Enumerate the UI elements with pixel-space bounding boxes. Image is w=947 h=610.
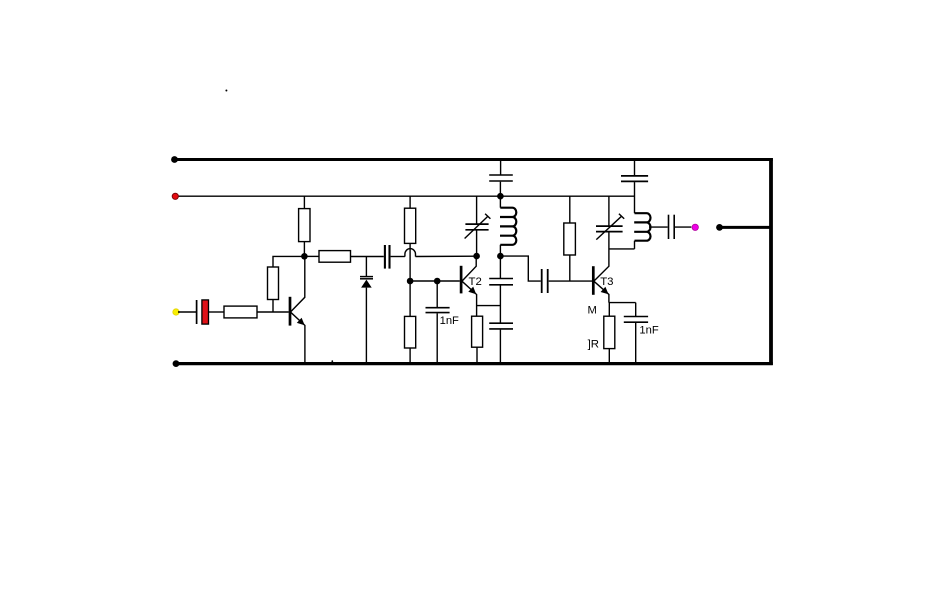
capacitor C13 1nF [624, 303, 648, 363]
wire hop over [405, 249, 416, 257]
wire input [178, 311, 196, 313]
resistor R6 [405, 281, 416, 363]
resistor R9 [604, 303, 615, 363]
node input yellow terminal [173, 309, 179, 315]
transistor T1 base bar [289, 297, 292, 326]
wire coil tap to C12 [649, 226, 668, 228]
wire feedback to R4 [273, 256, 304, 267]
trimmer capacitor C10 [596, 196, 624, 239]
wire R4 to base [272, 300, 274, 313]
wire T3 emitter branch [609, 302, 636, 304]
label M [588, 305, 597, 317]
transistor T3 base bar [592, 266, 595, 295]
wire tank1 to C9 [500, 256, 540, 281]
label 1nF for C13 [639, 324, 658, 336]
resistor R3 [319, 251, 351, 263]
trimmer capacitor C4 [465, 196, 491, 256]
svg-text:T2: T2 [469, 276, 482, 288]
resistor R8 [564, 223, 576, 255]
resistor R4 [268, 267, 279, 300]
resistor R7 [472, 316, 483, 363]
capacitor C1 plate [196, 300, 198, 324]
node supply input red terminal [172, 193, 178, 199]
capacitor C12 [669, 215, 675, 239]
wire node to R3 [304, 255, 319, 257]
svg-text:T3: T3 [600, 276, 613, 288]
node bottom-left terminal [173, 360, 180, 367]
capacitor C3 1nF [426, 281, 450, 363]
transistor T2 base bar [460, 266, 463, 294]
svg-text:]R: ]R [588, 339, 599, 351]
capacitor C6 tank1 to top rail [489, 160, 513, 197]
label 1nF for C3 [440, 315, 459, 327]
node tank1 left [473, 253, 480, 260]
transistor T2 emitter [462, 281, 477, 316]
transistor T3 collector [594, 231, 609, 281]
capacitor C11 tank2 to top rail [621, 160, 648, 214]
wire R8 to base line [569, 255, 571, 281]
svg-text:1nF: 1nF [639, 324, 658, 336]
transistor T3 emitter [594, 281, 609, 302]
wire T2 emitter branch [477, 305, 501, 307]
transistor T2 collector [462, 256, 476, 281]
wire C12 to output [675, 226, 691, 228]
wire R1 to T1 base [257, 311, 289, 313]
wire right border [769, 158, 773, 365]
capacitor C1 polarized plate red [202, 300, 209, 324]
svg-text:M: M [588, 305, 597, 317]
label T3 [600, 276, 613, 288]
wire hop to node [416, 255, 477, 257]
capacitor C2 [385, 245, 390, 269]
node output magenta terminal [692, 224, 698, 230]
resistor R5 [405, 208, 416, 243]
resistor R2 [299, 209, 310, 242]
label T2 [469, 276, 482, 288]
wire tank2 branch [609, 248, 635, 250]
wire C2 to hop [391, 256, 405, 258]
wire Vcc to R5 [409, 196, 411, 208]
wire Vcc to R8 [569, 196, 571, 223]
stray dot [225, 90, 227, 92]
stray dot 2 [331, 360, 333, 362]
node output terminal black [716, 224, 723, 231]
wire Vcc rail [175, 195, 634, 197]
wire R3 to C2 [351, 256, 384, 258]
wire bottom ground rail [175, 362, 773, 365]
wire R5 through hop to node [409, 243, 411, 281]
capacitor C9 [542, 269, 548, 293]
wire R2 to node [303, 242, 305, 257]
node C3 junction [434, 278, 441, 285]
svg-text:1nF: 1nF [440, 315, 459, 327]
resistor R1 [224, 306, 257, 318]
capacitor C7 divider upper [489, 256, 513, 323]
node T2 bias junction [407, 278, 414, 285]
node top-left terminal [171, 156, 178, 163]
wire Vcc to R2 [303, 196, 305, 208]
diode D1 varicap [360, 257, 373, 364]
inductor L2 [634, 213, 650, 249]
wire C1 to R1 [209, 311, 225, 313]
inductor L1 [500, 196, 516, 256]
wire output stub [720, 226, 772, 229]
transistor T1 emitter [291, 312, 305, 363]
node T1 collector junction [301, 253, 308, 260]
wire top supply rail [173, 158, 773, 161]
capacitor C8 divider lower [489, 323, 513, 363]
node Vcc rail junction [497, 193, 504, 200]
label DR [588, 339, 599, 351]
wire C9 to T3 base [549, 280, 593, 282]
transistor T1 collector [291, 256, 305, 312]
wire bias node to T2 base [410, 280, 460, 282]
node tank1 right [497, 253, 504, 260]
